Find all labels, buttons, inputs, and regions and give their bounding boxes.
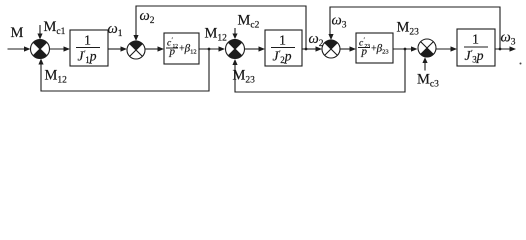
svg-text:p: p — [361, 46, 368, 58]
svg-text:p: p — [169, 46, 176, 58]
svg-text:1: 1 — [279, 34, 286, 49]
svg-text:1: 1 — [472, 33, 479, 48]
svg-text:M: M — [11, 25, 24, 41]
svg-text:1: 1 — [84, 34, 91, 49]
